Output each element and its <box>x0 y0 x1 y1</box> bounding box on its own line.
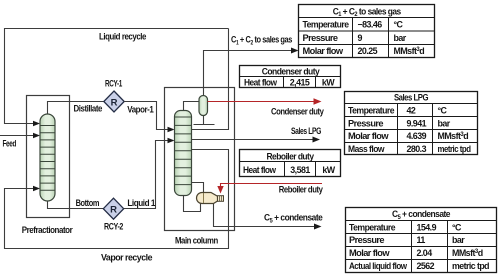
svg-text:metric tpd: metric tpd <box>452 261 489 271</box>
svg-text:Bottom: Bottom <box>76 198 100 208</box>
svg-text:Sales LPG: Sales LPG <box>394 93 429 103</box>
wire sales gas from condenser top <box>204 51 292 96</box>
svg-text:3,581: 3,581 <box>290 165 310 175</box>
table condenser duty <box>240 66 341 88</box>
column prefractionator tower <box>40 114 55 201</box>
svg-text:Feed: Feed <box>3 139 17 149</box>
condenser vessel <box>199 96 208 116</box>
svg-text:2.04: 2.04 <box>417 248 433 258</box>
node sales LPG arrow <box>313 137 321 143</box>
reboiler vessel <box>197 193 224 204</box>
wire bottoms to C5 condensate <box>214 204 315 227</box>
table C1+C2 to sales gas <box>299 5 435 58</box>
svg-text:C1 + C2 to sales gas: C1 + C2 to sales gas <box>231 35 292 47</box>
energy stream condenser duty red arrow <box>208 98 322 104</box>
box prefractionator boundary <box>27 96 70 218</box>
svg-text:42: 42 <box>407 106 416 116</box>
svg-text:°C: °C <box>394 20 404 30</box>
svg-text:R: R <box>111 97 118 108</box>
wire liquid 1 from RCY-2 to main tower <box>124 141 168 209</box>
svg-text:Pressure: Pressure <box>303 33 339 43</box>
svg-text:C5 + condensate: C5 + condensate <box>264 213 323 225</box>
svg-text:2,415: 2,415 <box>290 78 310 88</box>
wire bottom from prefrac tower to RCY-2 <box>48 200 105 209</box>
svg-text:2562: 2562 <box>417 261 435 271</box>
wire liquid recycle top horizontal <box>5 28 229 30</box>
svg-text:R: R <box>110 205 117 216</box>
wire vapor recycle from main tower side down and around <box>5 150 229 249</box>
node C5 arrow <box>314 224 322 230</box>
svg-text:11: 11 <box>417 235 426 245</box>
svg-text:Liquid 1: Liquid 1 <box>127 198 155 208</box>
wire sales LPG from main tower <box>192 139 314 141</box>
svg-text:Pressure: Pressure <box>349 235 385 245</box>
svg-text:MMsft3d: MMsft3d <box>394 46 425 56</box>
svg-text:Heat flow: Heat flow <box>243 165 276 175</box>
wire condenser bottom stem and tee <box>194 116 215 125</box>
svg-text:RCY-1: RCY-1 <box>105 79 122 89</box>
svg-text:Mass flow: Mass flow <box>348 144 385 154</box>
svg-text:Temperature: Temperature <box>349 222 396 232</box>
svg-text:4.639: 4.639 <box>407 131 427 141</box>
node liquid 1 arrow <box>168 138 175 144</box>
wire condenser inlet from main tower top <box>184 102 200 112</box>
svg-text:bar: bar <box>394 33 407 43</box>
recycle block RCY-1 <box>104 91 124 112</box>
table C5 + condensate <box>346 208 497 273</box>
svg-text:Temperature: Temperature <box>348 106 395 116</box>
svg-text:Molar flow: Molar flow <box>348 131 389 141</box>
svg-text:9: 9 <box>358 33 363 43</box>
column main tower <box>175 111 192 196</box>
node vapor recycle arrow into prefractionator <box>33 186 40 192</box>
svg-text:Condenser duty: Condenser duty <box>262 66 320 76</box>
table reboiler duty <box>240 150 341 177</box>
svg-text:MMsft3d: MMsft3d <box>438 131 469 141</box>
svg-text:Vapor-1: Vapor-1 <box>127 105 153 115</box>
wire liquid recycle right vertical from main column <box>192 29 229 130</box>
svg-text:Reboiler duty: Reboiler duty <box>279 185 323 195</box>
box main column boundary <box>165 88 235 231</box>
svg-text:Sales LPG: Sales LPG <box>291 126 321 136</box>
wire liquid recycle left vertical <box>5 28 35 124</box>
svg-text:Molar flow: Molar flow <box>349 248 390 258</box>
node vapor-1 arrow <box>168 127 175 133</box>
svg-text:Heat flow: Heat flow <box>244 78 277 88</box>
svg-text:metric tpd: metric tpd <box>438 144 471 154</box>
svg-text:Pressure: Pressure <box>348 118 384 128</box>
svg-text:Vapor recycle: Vapor recycle <box>101 253 152 263</box>
node feed arrow <box>33 133 40 139</box>
svg-text:MMsft3d: MMsft3d <box>452 248 483 258</box>
energy stream reboiler duty red arrow <box>217 184 322 194</box>
svg-text:Temperature: Temperature <box>303 20 350 30</box>
svg-text:kW: kW <box>322 165 335 175</box>
svg-text:Main column: Main column <box>175 236 218 246</box>
node sales gas arrow <box>291 48 299 54</box>
svg-text:kW: kW <box>322 78 335 88</box>
wire reboiler vapor return to tower <box>192 183 204 193</box>
svg-text:20.25: 20.25 <box>358 46 378 56</box>
svg-text:280.3: 280.3 <box>407 144 427 154</box>
svg-text:Distillate: Distillate <box>74 104 103 114</box>
svg-text:bar: bar <box>438 118 451 128</box>
svg-text:Prefractionator: Prefractionator <box>22 225 73 235</box>
node liquid recycle arrow into prefractionator <box>33 121 40 127</box>
svg-text:−83.46: −83.46 <box>358 20 383 30</box>
table sales LPG <box>345 92 478 155</box>
wire vapor-1 from RCY-1 to main tower <box>124 102 167 130</box>
svg-text:Molar flow: Molar flow <box>303 46 344 56</box>
svg-text:154.9: 154.9 <box>417 222 437 232</box>
wire feed line <box>0 135 34 137</box>
wire reboiler feed from tower bottom <box>184 195 201 212</box>
svg-text:Condenser duty: Condenser duty <box>271 107 324 117</box>
wire distillate from prefrac tower top to RCY-1 <box>48 102 105 116</box>
recycle block RCY-2 <box>103 198 123 219</box>
svg-text:RCY-2: RCY-2 <box>104 222 123 232</box>
svg-text:°C: °C <box>452 222 462 232</box>
svg-text:°C: °C <box>438 106 448 116</box>
svg-text:bar: bar <box>452 235 465 245</box>
svg-text:9.941: 9.941 <box>407 118 427 128</box>
svg-text:Actual liquid flow: Actual liquid flow <box>349 261 407 271</box>
svg-text:Liquid recycle: Liquid recycle <box>99 32 146 42</box>
svg-text:Reboiler duty: Reboiler duty <box>267 151 315 161</box>
